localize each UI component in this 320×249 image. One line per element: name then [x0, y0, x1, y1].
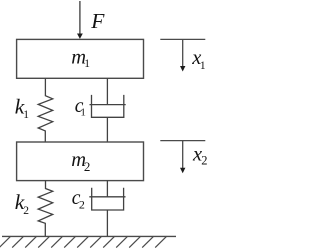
svg-text:2: 2: [79, 198, 85, 212]
damper c2: [89, 181, 125, 237]
x2 reference line: [160, 140, 205, 142]
damper c1 cylinder: [92, 95, 124, 117]
svg-text:1: 1: [80, 107, 86, 119]
svg-text:1: 1: [200, 60, 206, 72]
x2 arrow: [182, 141, 184, 170]
damper c1 piston plate: [90, 104, 126, 106]
spring k1: [38, 78, 53, 142]
damper c2 piston plate: [89, 196, 125, 198]
svg-text:F: F: [90, 9, 105, 33]
ground hatching: [0, 236, 167, 247]
damper c2 lower rod: [106, 210, 108, 236]
damper c1: [90, 78, 126, 142]
x1 reference line: [160, 38, 205, 40]
mass m1 box: [17, 39, 144, 78]
svg-text:2: 2: [84, 159, 91, 174]
damper c1 piston rod: [106, 78, 108, 104]
svg-text:1: 1: [23, 109, 29, 121]
svg-text:2: 2: [23, 205, 29, 217]
force arrowhead: [77, 34, 83, 39]
force arrow F: [79, 1, 81, 35]
svg-text:2: 2: [201, 153, 207, 167]
spring k2: [38, 181, 53, 237]
damper c2 piston rod: [106, 181, 108, 197]
x1 arrow: [182, 39, 184, 67]
damper c2 cylinder: [92, 188, 124, 210]
mass m2 box: [17, 142, 144, 181]
damper c1 lower rod: [106, 117, 108, 142]
ground line: [2, 235, 176, 237]
svg-text:1: 1: [84, 58, 90, 70]
